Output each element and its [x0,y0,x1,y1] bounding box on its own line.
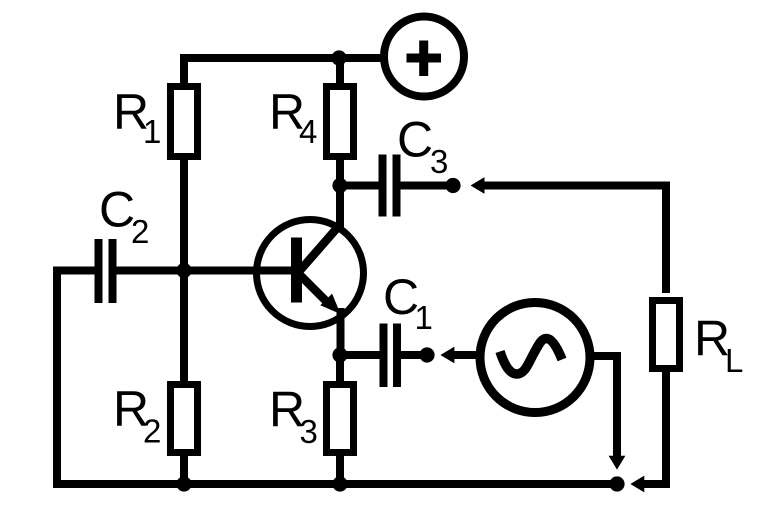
svg-text:3: 3 [300,413,318,450]
wire base from C2 to transistor [116,267,292,275]
junction dot top rail [331,50,346,65]
wire C1 to input node [401,351,424,359]
transistor Q1 [257,220,364,327]
wire top rail from R1 to supply [184,54,383,62]
signal source VS [480,303,590,413]
arrow into C1 input node [441,347,455,364]
arrow down into ground node [609,456,626,470]
svg-text:2: 2 [131,213,149,250]
capacitor C2 [99,239,113,303]
junction dot bottom rail under R3 [332,476,347,491]
resistor R4 [327,87,354,157]
wire RL bottom to ground node [642,368,666,484]
wire R3 top lead [336,352,344,385]
wire R3 bottom lead [336,452,344,484]
wire arrow to signal source [452,351,477,359]
svg-text:4: 4 [299,113,317,150]
svg-text:C: C [99,182,135,238]
wire C3 to output node [401,182,450,190]
junction dot emitter node [332,347,347,362]
wire R1 bottom to base node to R2 top [180,156,188,385]
svg-text:L: L [725,342,743,379]
wire signal source to ground node [593,356,617,458]
wire collector node to C3 [340,182,379,190]
node input dot at C1 [419,347,434,362]
wire R1 top lead [180,54,188,88]
svg-text:3: 3 [430,143,448,180]
arrow RL into ground node [631,476,645,493]
svg-text:C: C [397,112,433,168]
wire emitter node to C1 [340,351,380,359]
wire R2 bottom lead [180,452,188,484]
junction dot bottom rail under R2 [176,476,191,491]
resistor RL [653,301,680,369]
arrow into C3 output node [471,177,485,194]
junction dot ground node [609,476,624,491]
svg-text:1: 1 [415,299,433,336]
wire R4 bottom to collector [336,156,344,227]
resistor R1 [171,87,198,157]
node output dot at C3 [445,178,460,193]
wire C2 left lead and left/bottom ground rail [57,271,613,485]
svg-text:2: 2 [143,413,161,450]
junction dot base node [176,263,191,278]
capacitor C3 [383,155,397,217]
resistor R3 [327,385,354,453]
junction dot collector node [332,178,347,193]
wire emitter to C1 node [337,308,345,358]
capacitor C1 [384,324,398,388]
svg-text:1: 1 [143,113,161,150]
wire output node to RL top [480,186,666,294]
power supply V+ [384,17,464,97]
wire R4 top lead [336,58,344,88]
resistor R2 [171,385,198,453]
